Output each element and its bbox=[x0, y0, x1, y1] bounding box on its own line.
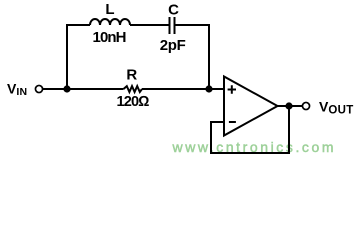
svg-text:R: R bbox=[126, 67, 137, 84]
op-amp U1 triangle bbox=[224, 77, 278, 136]
svg-text:L: L bbox=[105, 1, 114, 18]
node: input junction dot bbox=[63, 85, 70, 92]
svg-text:120Ω: 120Ω bbox=[117, 94, 150, 110]
wire: left vertical branch bbox=[66, 25, 68, 89]
terminal VIN open circle bbox=[35, 85, 42, 92]
wire: feedback loop bbox=[211, 106, 289, 153]
wire: right vertical from capacitor branch down bbox=[208, 24, 210, 89]
resistor R zigzag bbox=[124, 86, 143, 92]
terminal VOUT open circle bbox=[302, 102, 309, 109]
wire: inverting input stub bbox=[211, 121, 224, 123]
wire: main horizontal VIN to op-amp bbox=[43, 88, 224, 90]
svg-text:C: C bbox=[168, 1, 179, 18]
wire: output bbox=[277, 105, 302, 107]
svg-text:2pF: 2pF bbox=[160, 37, 186, 54]
svg-text:10nH: 10nH bbox=[93, 29, 127, 46]
capacitor C plates bbox=[170, 17, 175, 34]
node: op-amp + input junction dot bbox=[205, 85, 212, 92]
inductor L coil bbox=[90, 19, 130, 25]
node: output junction dot bbox=[285, 102, 292, 109]
op-amp plus sign bbox=[228, 85, 236, 93]
wire: top horizontal segments bbox=[66, 24, 210, 26]
op-amp minus sign bbox=[229, 121, 236, 123]
